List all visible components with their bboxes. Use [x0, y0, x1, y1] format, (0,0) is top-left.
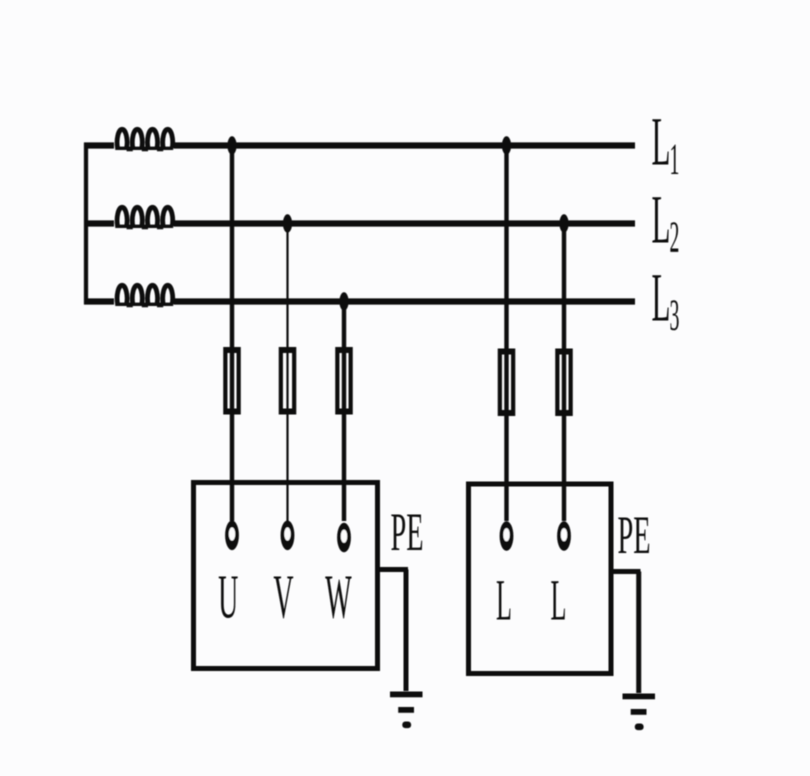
fuse F4: [498, 349, 516, 417]
terminal W: [337, 523, 351, 553]
svg-text:L: L: [496, 568, 512, 632]
label L2: [652, 181, 680, 262]
wire L2 bus: [174, 220, 635, 226]
wire L3 bus: [174, 298, 635, 304]
inductor L3 coil: [117, 285, 173, 304]
svg-text:W: W: [325, 563, 352, 631]
load box 1 (U V W): [194, 483, 378, 669]
fuse F2: [279, 347, 297, 415]
ground 2: [623, 694, 656, 731]
wire PE 1: [378, 570, 409, 692]
inductor L2 coil: [117, 207, 173, 226]
terminal U: [225, 521, 239, 551]
fuse F3: [335, 347, 353, 415]
wire L1 bus: [174, 142, 635, 148]
ground 1: [390, 692, 423, 729]
wire L2 bus left stub: [84, 220, 114, 226]
terminal L(b): [557, 521, 571, 551]
node L1-La junction: [502, 136, 511, 154]
label L3: [652, 259, 680, 340]
node L1-U junction: [227, 136, 236, 154]
wire drop L(a) from L1: [504, 146, 508, 522]
terminal V: [281, 521, 295, 551]
svg-text:1: 1: [670, 136, 680, 184]
wire PE 2: [611, 572, 641, 694]
wire L1 bus left stub: [84, 142, 114, 148]
svg-text:3: 3: [670, 292, 680, 340]
svg-text:L: L: [551, 568, 567, 632]
svg-text:L: L: [652, 103, 671, 180]
wire drop U from L1: [230, 146, 234, 522]
node L3-W junction: [339, 292, 348, 310]
label L1: [652, 103, 680, 184]
fuse F5: [555, 349, 573, 417]
load box 2 (L L): [469, 484, 612, 674]
terminal L(a): [500, 521, 514, 551]
svg-text:V: V: [273, 563, 293, 631]
wire drop L(b) from L2: [562, 224, 566, 522]
wire drop V from L2 (thin): [286, 224, 288, 522]
svg-text:L: L: [652, 259, 671, 336]
wire left rail: [84, 143, 88, 305]
svg-text:2: 2: [670, 214, 680, 262]
wire drop W from L3: [342, 302, 346, 522]
node L2-Lb junction: [559, 214, 568, 232]
wire L3 bus left stub: [84, 298, 114, 304]
svg-text:PE: PE: [390, 504, 423, 563]
inductor L1 coil: [117, 129, 173, 148]
fuse F1: [223, 347, 241, 415]
svg-text:L: L: [652, 181, 671, 258]
svg-text:U: U: [218, 563, 238, 631]
node L2-V junction: [283, 214, 292, 232]
svg-text:PE: PE: [617, 507, 650, 566]
